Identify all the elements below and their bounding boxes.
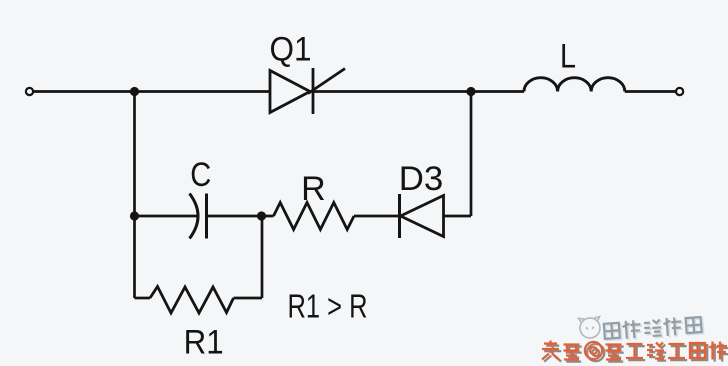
wire top rail left xyxy=(33,90,270,93)
svg-text:R1 > R: R1 > R xyxy=(288,288,368,325)
diode D3 cathode bar xyxy=(398,194,401,238)
inductor L xyxy=(524,78,625,92)
wire left vertical lower xyxy=(133,216,136,298)
wire R to diode xyxy=(354,215,400,218)
watermark logo lion head xyxy=(579,317,602,339)
svg-text:R1: R1 xyxy=(184,324,224,362)
right output terminal xyxy=(676,88,683,95)
wire bottom rail left xyxy=(135,297,151,300)
svg-text:C: C xyxy=(190,156,211,194)
left input terminal xyxy=(26,88,33,95)
svg-text:Q1: Q1 xyxy=(270,31,312,69)
diode D3 triangle xyxy=(401,196,444,237)
wire right vertical lower xyxy=(261,216,264,298)
wire capacitor to mid junction xyxy=(207,215,274,218)
node junction top-left xyxy=(130,87,139,96)
svg-text:L: L xyxy=(560,38,576,76)
capacitor C straight plate xyxy=(205,194,208,239)
svg-text:R: R xyxy=(301,170,326,208)
svg-text:D3: D3 xyxy=(399,160,444,198)
watermark text: orange account row (头条@李工谈元器件) xyxy=(542,341,728,362)
wire mid rail to capacitor xyxy=(135,215,197,218)
resistor R1 xyxy=(150,287,234,314)
capacitor C curved plate xyxy=(190,194,199,239)
wire diode to right vertical xyxy=(444,215,472,218)
node junction mid-left xyxy=(130,211,139,220)
wire right vertical xyxy=(470,92,473,217)
wire bottom rail right xyxy=(234,297,263,300)
node junction mid-right xyxy=(257,211,266,220)
watermark text: gray brand row (硬件攻城狮) xyxy=(604,315,704,341)
thyristor Q1 xyxy=(270,68,345,114)
resistor R xyxy=(274,203,355,230)
wire top rail right xyxy=(313,90,524,93)
wire left vertical (top junction to mid rail) xyxy=(133,92,136,217)
wire to right terminal xyxy=(625,90,676,93)
node junction top-right xyxy=(466,87,475,96)
